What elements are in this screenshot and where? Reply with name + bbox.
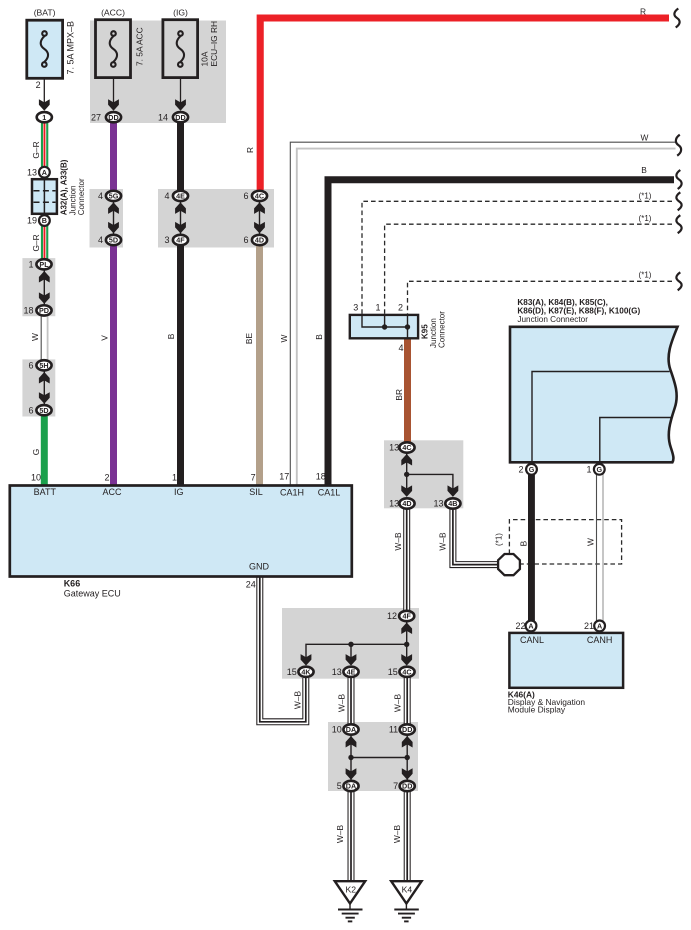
svg-text:CANL: CANL bbox=[520, 635, 544, 645]
display & navigation module K46(A) box bbox=[509, 633, 623, 688]
svg-text:12: 12 bbox=[387, 611, 397, 621]
svg-text:A: A bbox=[528, 622, 533, 631]
svg-text:BATT: BATT bbox=[34, 487, 57, 497]
connector oval 4C pin 6 bbox=[252, 191, 267, 201]
svg-text:DA: DA bbox=[346, 782, 356, 791]
connector line fuse IG to oval 14 DD arrow bbox=[175, 99, 186, 111]
fuse symbol IG bbox=[177, 31, 184, 67]
svg-text:4E: 4E bbox=[176, 192, 185, 201]
connector mating line 5H-5D bbox=[39, 369, 50, 406]
svg-text:4D: 4D bbox=[255, 236, 264, 245]
wire W-B (4C to DD) bbox=[404, 677, 411, 730]
svg-text:6: 6 bbox=[243, 191, 248, 201]
svg-text:(*1): (*1) bbox=[494, 533, 503, 546]
svg-text:W–B: W–B bbox=[337, 694, 347, 713]
svg-text:1: 1 bbox=[42, 113, 46, 122]
svg-text:G: G bbox=[529, 465, 535, 474]
svg-text:BR: BR bbox=[394, 389, 404, 401]
fuse 10A ECU-IG RH box bbox=[163, 20, 198, 78]
svg-text:3: 3 bbox=[353, 302, 358, 312]
svg-text:A: A bbox=[42, 168, 47, 177]
fuse 7.5A ACC box bbox=[96, 20, 131, 78]
wire B (4F to K66 IG) black bbox=[177, 246, 184, 486]
K83 internal bus 1 (to pin 2G) bbox=[532, 372, 670, 463]
svg-text:K66: K66 bbox=[64, 579, 81, 589]
wire V (5D to K66 ACC) violet bbox=[110, 246, 117, 486]
connector branch 4C to 4D and 4B bbox=[401, 451, 458, 497]
connector oval PD pin 18 bbox=[36, 305, 51, 315]
svg-text:3: 3 bbox=[164, 235, 169, 245]
connector oval 4D pin 6 bbox=[252, 235, 267, 245]
svg-text:4: 4 bbox=[98, 191, 103, 201]
wire break symbol (*1) row 3 bbox=[676, 272, 681, 290]
connector oval DD pin 7 bbox=[400, 781, 415, 791]
svg-text:W: W bbox=[279, 334, 289, 342]
svg-text:14: 14 bbox=[158, 112, 168, 122]
svg-text:1: 1 bbox=[28, 260, 33, 270]
junction pin circle G (1) bbox=[594, 464, 605, 475]
svg-text:W–B: W–B bbox=[393, 694, 403, 713]
connector mating line 5G-5D bbox=[108, 200, 119, 235]
fuse symbol ACC bbox=[110, 31, 117, 67]
connector block shading (PL/PD connector pair) bbox=[22, 258, 55, 316]
svg-text:G: G bbox=[31, 449, 41, 456]
svg-text:W–B: W–B bbox=[438, 532, 448, 551]
svg-text:G: G bbox=[597, 465, 603, 474]
wire G-R (fuse to A32 to PL) green-red-green stripes bbox=[41, 123, 48, 259]
junction dot 4F branch left bbox=[348, 642, 353, 647]
wire G (5D to K66 BATT) green bbox=[41, 416, 48, 486]
svg-text:PL: PL bbox=[39, 260, 49, 269]
gateway ECU K66 box bbox=[10, 486, 352, 577]
connector oval 5D pin 6 bbox=[36, 405, 51, 415]
svg-text:W: W bbox=[586, 538, 596, 546]
connector block shading (5G/5D connector pair) bbox=[90, 189, 124, 248]
svg-text:W–B: W–B bbox=[393, 532, 403, 551]
module pin circle A (21) bbox=[594, 621, 605, 632]
svg-text:5H: 5H bbox=[39, 361, 48, 370]
wire W-B (K66 GND pin 24 up into 4K) bbox=[260, 576, 306, 722]
connector oval 4C pin 15 bbox=[399, 667, 414, 677]
svg-text:13: 13 bbox=[332, 667, 342, 677]
connector oval DD pin 14 bbox=[173, 112, 188, 122]
svg-text:4C: 4C bbox=[255, 192, 264, 201]
svg-text:4C: 4C bbox=[402, 443, 411, 452]
svg-text:10: 10 bbox=[332, 725, 342, 735]
connector oval 4F pin 3 bbox=[173, 235, 188, 245]
svg-text:27: 27 bbox=[91, 112, 101, 122]
svg-text:DA: DA bbox=[346, 725, 356, 734]
svg-text:2: 2 bbox=[518, 465, 523, 475]
svg-text:B: B bbox=[641, 165, 647, 175]
wire B (junction connector 2G to K46 CANL 22A) black bbox=[528, 474, 535, 622]
connector oval 5D pin 4 bbox=[106, 235, 121, 245]
svg-text:15: 15 bbox=[287, 667, 297, 677]
fuse 7.5A MPX-B (BAT) box bbox=[27, 20, 63, 78]
svg-text:(*1): (*1) bbox=[639, 192, 652, 201]
connector block shading (4F/4K/4E/4C connector group) bbox=[282, 608, 419, 679]
junction pin circle B (19) bbox=[39, 215, 50, 226]
svg-text:CANH: CANH bbox=[587, 635, 613, 645]
ground K2 bbox=[335, 881, 365, 921]
wire break symbol (*1) row 2 bbox=[676, 215, 681, 233]
svg-text:PD: PD bbox=[39, 306, 49, 315]
splice octagon (*1) bbox=[498, 554, 520, 575]
svg-text:(*1): (*1) bbox=[639, 271, 652, 280]
ground K4 bbox=[391, 881, 421, 921]
wire (*1) dashed (right edge to K95 pin 3) bbox=[362, 201, 672, 315]
svg-text:W–B: W–B bbox=[292, 691, 302, 710]
connector line fuse ACC to oval 27 DD arrow bbox=[108, 99, 119, 111]
wire W-B (4E to DA) bbox=[348, 677, 355, 730]
wire B (IG DD to 4E) black bbox=[177, 123, 184, 190]
svg-text:BE: BE bbox=[244, 333, 254, 345]
svg-text:5D: 5D bbox=[109, 236, 118, 245]
svg-text:18: 18 bbox=[316, 472, 326, 482]
svg-text:DD: DD bbox=[108, 113, 118, 122]
svg-text:Junction Connector: Junction Connector bbox=[517, 315, 588, 324]
svg-text:15: 15 bbox=[388, 667, 398, 677]
junction dot 4F branch right bbox=[404, 642, 409, 647]
svg-text:(IG): (IG) bbox=[173, 7, 188, 17]
svg-text:V: V bbox=[99, 335, 109, 341]
svg-text:(BAT): (BAT) bbox=[34, 7, 56, 17]
wire W-B (4B to octagon splice) bbox=[453, 508, 499, 565]
svg-text:17: 17 bbox=[279, 472, 289, 482]
wire break symbol R bbox=[674, 9, 679, 28]
svg-text:7. 5A MPX–B: 7. 5A MPX–B bbox=[66, 21, 76, 75]
connector oval 4D pin 13 bbox=[399, 498, 414, 508]
fuse symbol BAT bbox=[41, 31, 48, 67]
connector mating lines DA-DA DD-DD with crossbar bbox=[346, 734, 413, 781]
wire W (right edge to K66 CA1H) white bbox=[290, 142, 675, 485]
wire (*1) dashed (right edge to K95 pin 1) bbox=[385, 224, 672, 315]
svg-text:7. 5A ACC: 7. 5A ACC bbox=[134, 27, 144, 66]
svg-text:CA1H: CA1H bbox=[280, 487, 304, 497]
svg-text:13: 13 bbox=[389, 443, 399, 453]
svg-text:18: 18 bbox=[23, 306, 33, 316]
svg-text:B: B bbox=[166, 333, 176, 339]
connector oval 5H pin 6 bbox=[36, 360, 51, 370]
svg-text:CA1L: CA1L bbox=[318, 487, 341, 497]
svg-text:GND: GND bbox=[249, 561, 270, 571]
wire break symbol W bbox=[676, 135, 681, 156]
svg-text:W: W bbox=[641, 133, 649, 143]
svg-text:4F: 4F bbox=[176, 236, 185, 245]
svg-text:W–B: W–B bbox=[392, 825, 402, 844]
connector mating line 4E-4F bbox=[175, 200, 186, 235]
connector oval 4F pin 12 bbox=[399, 611, 414, 621]
svg-text:4: 4 bbox=[164, 191, 169, 201]
svg-text:6: 6 bbox=[28, 361, 33, 371]
svg-text:4F: 4F bbox=[403, 612, 412, 621]
svg-text:K2: K2 bbox=[346, 885, 357, 895]
svg-text:R: R bbox=[245, 147, 255, 153]
junction dot DD crossbar bbox=[405, 755, 410, 760]
wire W-B (DA to ground K2) bbox=[348, 791, 355, 881]
svg-text:5G: 5G bbox=[109, 192, 119, 201]
svg-text:2: 2 bbox=[36, 80, 41, 90]
svg-text:13: 13 bbox=[27, 167, 37, 177]
connector oval 1 (BAT fuse out) bbox=[37, 112, 52, 122]
svg-text:5: 5 bbox=[337, 781, 342, 791]
svg-text:B: B bbox=[42, 216, 47, 225]
svg-text:DD: DD bbox=[175, 113, 185, 122]
K83 internal bus 2 (to pin 1G) bbox=[600, 418, 672, 463]
connector block shading (4C/4D/4B connector group) bbox=[384, 440, 463, 508]
junction pin circle A (13) bbox=[39, 167, 50, 178]
wire B (right edge to K66 CA1L) black bbox=[328, 180, 674, 486]
wire W-B (4D to 4F) bbox=[403, 508, 410, 611]
wire break symbol (*1) row 1 bbox=[676, 192, 681, 210]
svg-text:13: 13 bbox=[433, 499, 443, 509]
svg-text:11: 11 bbox=[389, 725, 398, 735]
svg-text:1: 1 bbox=[172, 472, 177, 482]
connector oval DA pin 10 bbox=[343, 724, 358, 734]
wire W-B (DD to ground K4) bbox=[404, 791, 411, 881]
wire R (from right edge to 4C) red bbox=[260, 18, 669, 190]
wire (*1) dashed (right edge to K95 pin 2) bbox=[408, 281, 673, 315]
junction pin circle G (2) bbox=[526, 464, 537, 475]
junction connector A32(A) A33(B) box bbox=[32, 179, 57, 214]
connector block shading (ACC/IG fuse panel) bbox=[90, 21, 226, 124]
junction dot DA crossbar bbox=[348, 755, 353, 760]
svg-text:G–R: G–R bbox=[31, 141, 41, 158]
svg-text:6: 6 bbox=[28, 405, 33, 415]
svg-text:SIL: SIL bbox=[249, 487, 263, 497]
svg-text:Connector: Connector bbox=[437, 311, 446, 348]
wire break symbol B bbox=[676, 170, 681, 189]
wire V (ACC DD to 5G) violet bbox=[110, 123, 117, 190]
svg-text:4D: 4D bbox=[402, 499, 411, 508]
svg-text:B: B bbox=[314, 334, 324, 340]
connector oval PL pin 1 bbox=[36, 259, 51, 269]
svg-text:10: 10 bbox=[31, 472, 41, 482]
svg-text:K4: K4 bbox=[402, 885, 413, 895]
svg-text:DD: DD bbox=[402, 782, 412, 791]
svg-text:A: A bbox=[597, 622, 602, 631]
svg-text:A32(A), A33(B): A32(A), A33(B) bbox=[60, 159, 69, 215]
svg-text:Module Display: Module Display bbox=[508, 705, 566, 715]
svg-text:22: 22 bbox=[515, 621, 525, 631]
connector oval DD pin 27 bbox=[106, 112, 121, 122]
junction connector K83-K100 box (torn right edge) bbox=[510, 327, 678, 463]
wire fuse IG lead bbox=[180, 78, 182, 106]
connector block shading (4E/4F and 4C/4D connector pairs) bbox=[158, 189, 274, 248]
connector oval 4K pin 15 bbox=[298, 667, 313, 677]
connector line fuse BAT to oval 1 arrow bbox=[39, 99, 50, 111]
svg-text:13: 13 bbox=[389, 499, 399, 509]
svg-text:21: 21 bbox=[584, 621, 594, 631]
optional region (*1) dashed box around CAN wires bbox=[509, 520, 621, 564]
svg-text:4: 4 bbox=[98, 235, 103, 245]
K95 junction dot pin1 bbox=[382, 324, 387, 329]
svg-text:19: 19 bbox=[27, 216, 37, 226]
wire W (junction connector 1G to K46 CANH 21A) white bbox=[597, 474, 604, 622]
wire fuse BAT lead (pin 2) bbox=[43, 78, 45, 106]
connector block shading (5H/5D connector pair) bbox=[22, 359, 55, 416]
svg-text:DD: DD bbox=[402, 725, 412, 734]
svg-text:2: 2 bbox=[104, 472, 109, 482]
K95 junction dot pin2 bbox=[405, 324, 410, 329]
connector oval 5G pin 4 bbox=[106, 191, 121, 201]
connector mating line PL-PD bbox=[39, 268, 50, 306]
svg-text:7: 7 bbox=[393, 781, 398, 791]
connector oval 4E pin 4 bbox=[173, 191, 188, 201]
connector block shading (DA/DD connector pairs) bbox=[328, 722, 418, 791]
connector oval DA pin 5 bbox=[343, 781, 358, 791]
svg-text:G–R: G–R bbox=[31, 234, 41, 251]
svg-text:4K: 4K bbox=[301, 668, 311, 677]
svg-text:4: 4 bbox=[398, 343, 403, 353]
svg-text:1: 1 bbox=[586, 465, 591, 475]
svg-text:R: R bbox=[640, 7, 646, 17]
svg-text:W–B: W–B bbox=[335, 825, 345, 844]
connector oval 4B pin 13 bbox=[445, 498, 460, 508]
svg-text:5D: 5D bbox=[39, 406, 48, 415]
svg-text:Connector: Connector bbox=[77, 178, 86, 215]
svg-text:(ACC): (ACC) bbox=[101, 7, 125, 17]
svg-text:2: 2 bbox=[398, 302, 403, 312]
connector mating line 4C-4D bbox=[254, 200, 265, 235]
svg-text:IG: IG bbox=[174, 487, 184, 497]
connector oval 4E pin 13 bbox=[343, 667, 358, 677]
svg-text:24: 24 bbox=[246, 580, 256, 590]
wire BE (4D to K66 SIL) beige bbox=[256, 246, 263, 486]
connector oval DD pin 11 bbox=[400, 724, 415, 734]
svg-text:4E: 4E bbox=[347, 668, 356, 677]
svg-text:W: W bbox=[30, 333, 40, 341]
wire W (PD to 5H) white bbox=[41, 316, 47, 360]
connector branch 4F to 4K 4E 4C bbox=[301, 620, 413, 666]
svg-text:4B: 4B bbox=[448, 499, 457, 508]
wire BR (K95 pin 4 to 4C) brown bbox=[404, 338, 411, 442]
K95 internal bus bbox=[362, 316, 408, 338]
junction dot 4C branch bbox=[404, 472, 409, 477]
module pin circle A (22) bbox=[526, 621, 537, 632]
svg-text:1: 1 bbox=[375, 302, 380, 312]
svg-text:(*1): (*1) bbox=[639, 214, 652, 223]
svg-text:B: B bbox=[519, 540, 529, 546]
wire fuse ACC lead bbox=[113, 78, 115, 106]
svg-text:Gateway ECU: Gateway ECU bbox=[64, 589, 121, 599]
svg-text:ACC: ACC bbox=[102, 487, 122, 497]
svg-text:6: 6 bbox=[243, 235, 248, 245]
svg-text:7: 7 bbox=[251, 472, 256, 482]
junction connector K95 box bbox=[350, 315, 418, 338]
connector oval 4C pin 13 (BR) bbox=[399, 442, 414, 452]
svg-text:4C: 4C bbox=[402, 668, 411, 677]
